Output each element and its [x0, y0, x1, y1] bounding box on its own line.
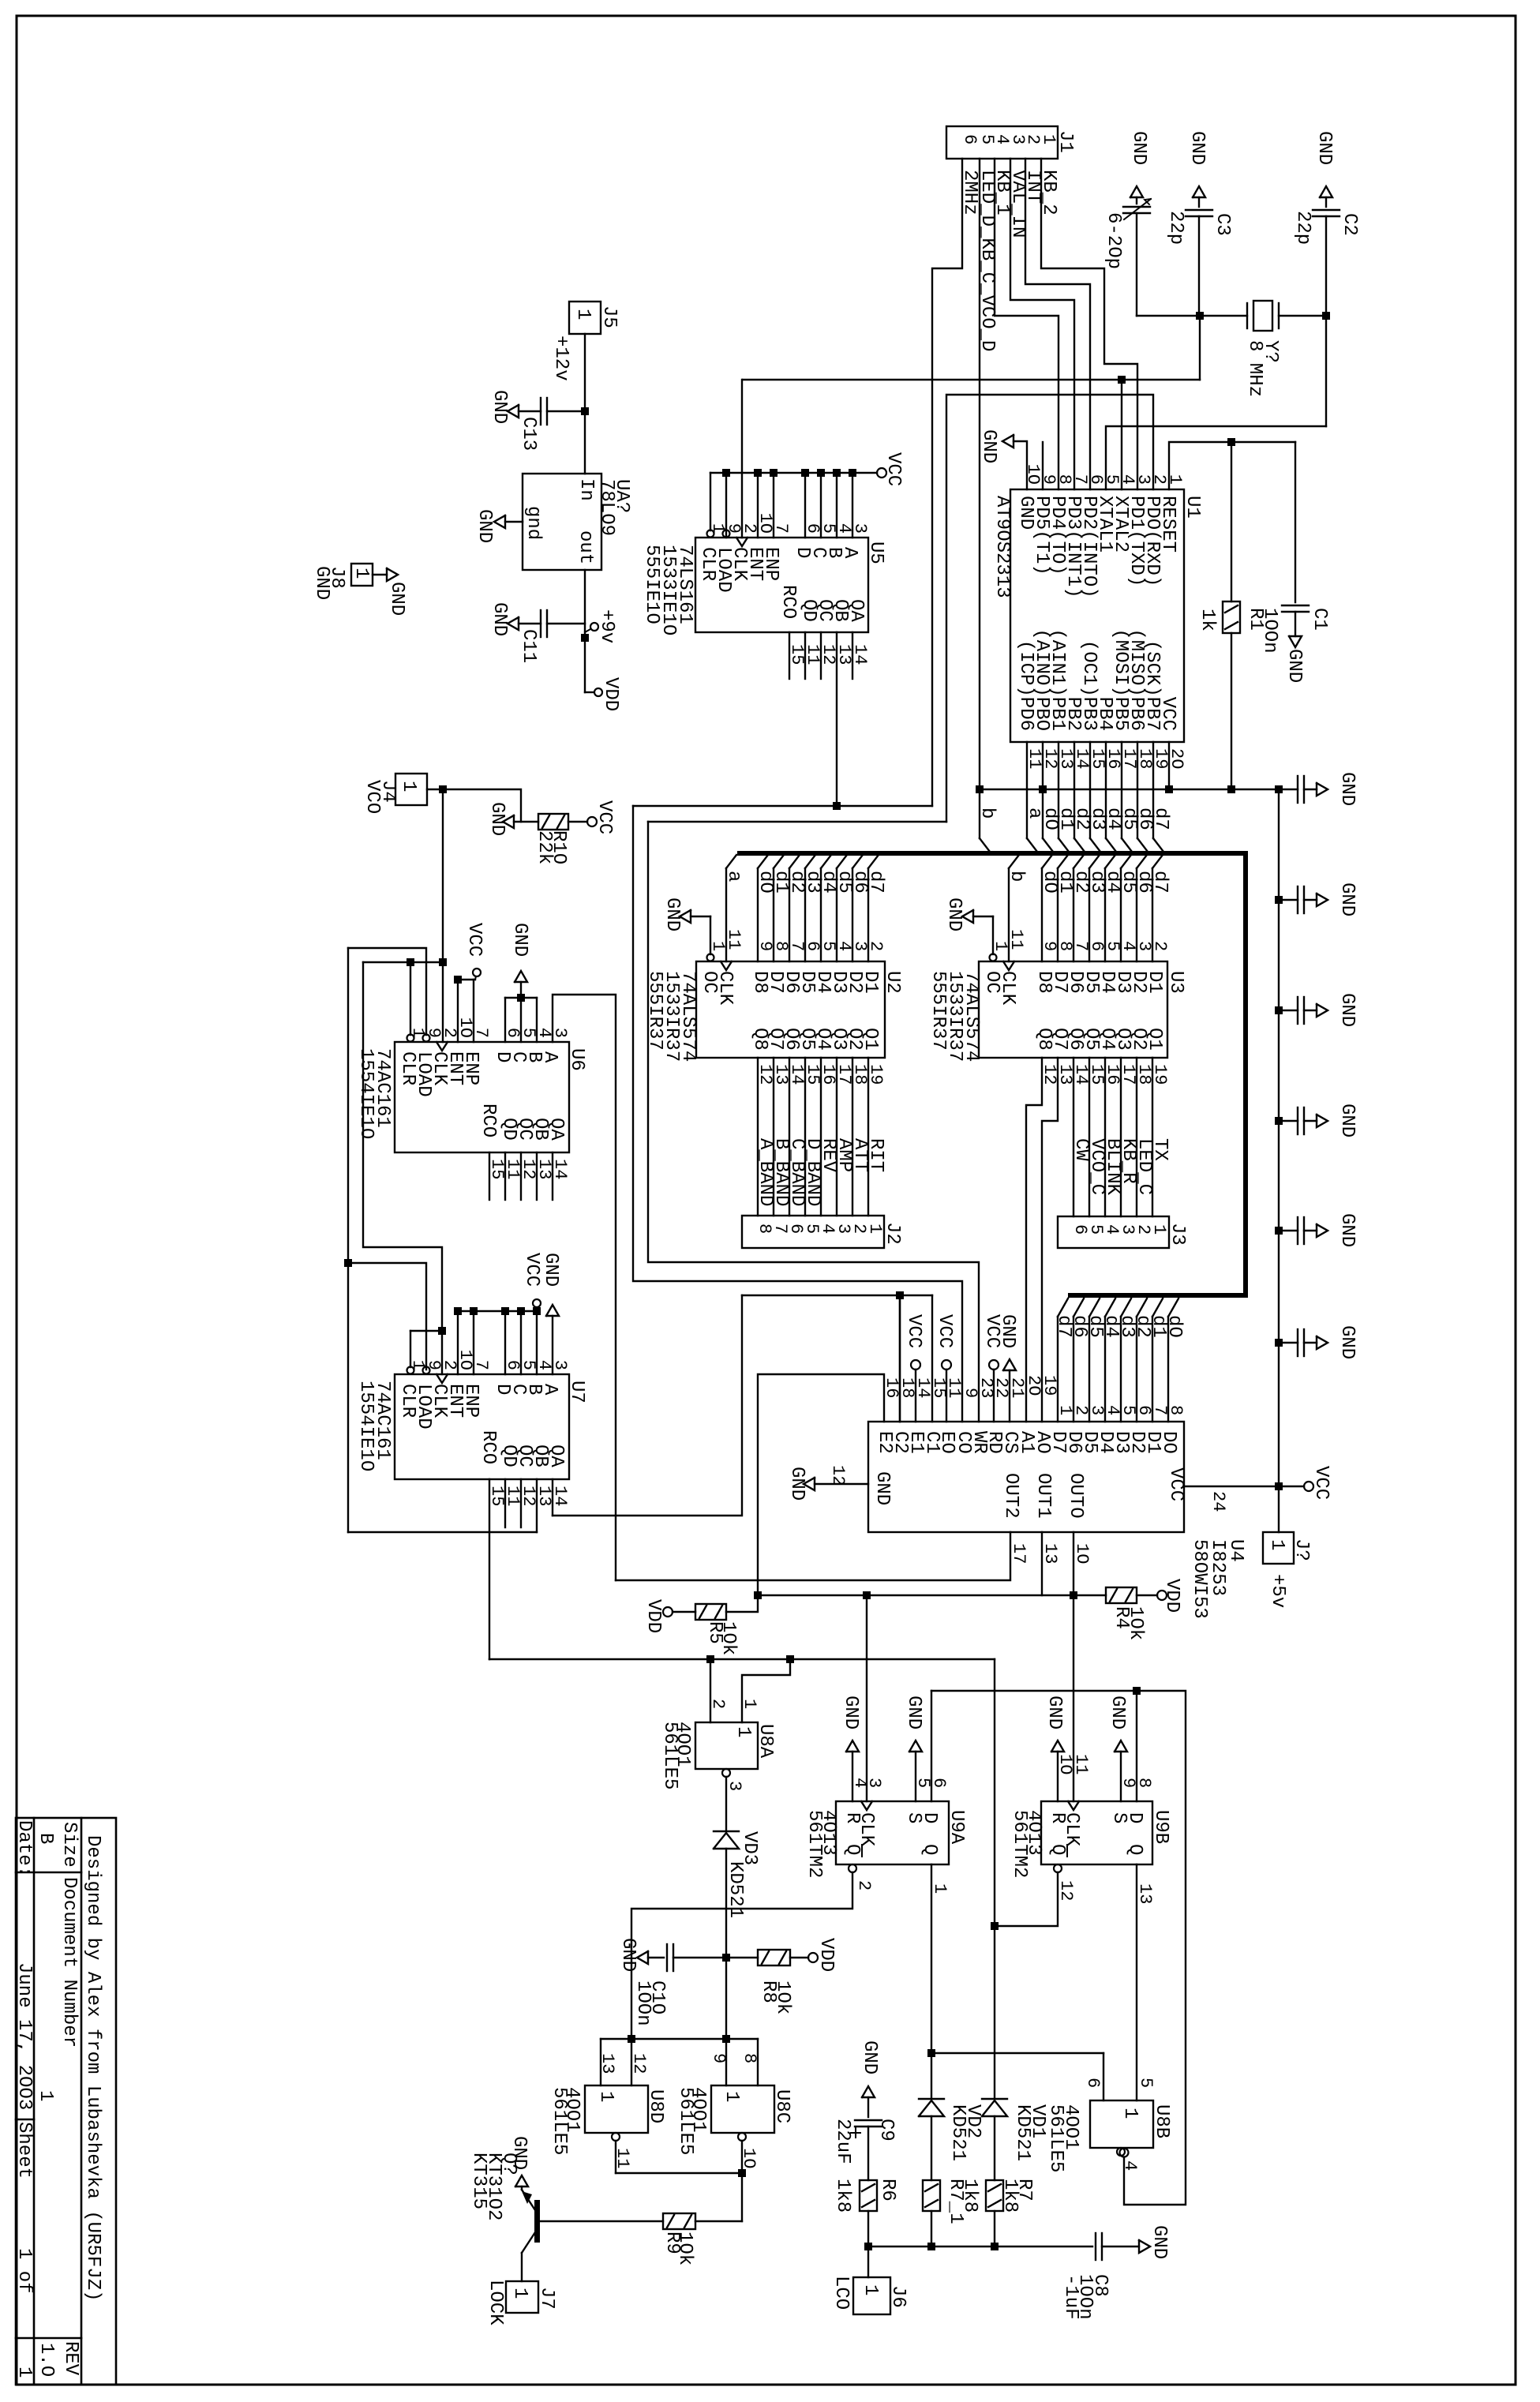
svg-text:b: b — [1006, 871, 1027, 882]
svg-text:7: 7 — [471, 1360, 491, 1370]
svg-text:1: 1 — [13, 2366, 35, 2378]
svg-text:1554IE1O: 1554IE1O — [355, 1048, 377, 1139]
svg-text:7: 7 — [471, 1028, 491, 1038]
svg-text:U8C: U8C — [771, 2089, 792, 2123]
svg-text:U5: U5 — [865, 541, 886, 564]
svg-text:d7: d7 — [865, 871, 886, 894]
svg-text:21: 21 — [1007, 1377, 1027, 1398]
svg-text:GND: GND — [1128, 131, 1149, 165]
svg-text:561TM2: 561TM2 — [1009, 1810, 1030, 1878]
svg-text:13: 13 — [598, 2053, 617, 2074]
svg-text:dO: dO — [1163, 1315, 1185, 1338]
svg-text:GND: GND — [1336, 993, 1358, 1027]
svg-text:June 17, 2OO3: June 17, 2OO3 — [13, 1962, 35, 2110]
svg-text:VCC: VCC — [903, 1314, 924, 1348]
svg-text:VDD: VDD — [600, 677, 621, 711]
svg-text:VDD: VDD — [1161, 1579, 1182, 1613]
svg-text:Date:: Date: — [13, 1820, 35, 1877]
svg-text:GND: GND — [1336, 1104, 1358, 1137]
svg-text:8: 8 — [1166, 1405, 1186, 1415]
svg-text:1: 1 — [595, 2091, 616, 2102]
svg-text:GND: GND — [540, 1253, 561, 1287]
svg-text:GND: GND — [978, 429, 999, 463]
svg-text:+9v: +9v — [596, 609, 617, 643]
svg-text:13: 13 — [1040, 1543, 1060, 1564]
svg-text:14: 14 — [850, 644, 870, 665]
svg-text:J1: J1 — [1055, 130, 1076, 153]
svg-text:U7: U7 — [566, 1381, 587, 1403]
svg-text:VD2: VD2 — [962, 2104, 984, 2138]
svg-text:C3: C3 — [1212, 213, 1233, 236]
svg-text:J5: J5 — [598, 305, 620, 328]
svg-text:1OOn: 1OOn — [632, 1980, 654, 2026]
svg-text:OUT1: OUT1 — [1032, 1473, 1054, 1519]
svg-text:22k: 22k — [534, 830, 555, 864]
svg-text:D1: D1 — [860, 971, 881, 994]
svg-text:RCO: RCO — [777, 585, 799, 619]
svg-text:78LO9: 78LO9 — [596, 479, 617, 536]
svg-text:J7: J7 — [536, 2287, 557, 2310]
svg-text:J6: J6 — [887, 2285, 909, 2308]
svg-text:1: 1 — [733, 1726, 754, 1737]
svg-text:GND: GND — [1336, 882, 1358, 916]
svg-text:1: 1 — [721, 2091, 742, 2102]
svg-text:5: 5 — [1136, 2078, 1156, 2088]
svg-text:Designed by Alex from Lubashev: Designed by Alex from Lubashevka (UR5FJZ… — [82, 1835, 103, 2302]
svg-text:VDD: VDD — [815, 1938, 837, 1972]
svg-text:GND: GND — [1107, 1696, 1128, 1729]
svg-text:1: 1 — [1149, 1224, 1169, 1235]
svg-text:GND: GND — [1336, 1325, 1358, 1359]
svg-text:Size: Size — [58, 1822, 80, 1868]
svg-text:+12v: +12v — [550, 335, 571, 381]
svg-text:1Ok: 1Ok — [718, 1621, 739, 1655]
svg-text:11: 11 — [944, 1377, 964, 1398]
svg-text:A: A — [839, 547, 860, 559]
svg-text:3: 3 — [864, 1778, 884, 1788]
svg-text:KT315: KT315 — [468, 2153, 489, 2209]
svg-text:7: 7 — [771, 523, 791, 534]
svg-text:D: D — [919, 1812, 940, 1823]
svg-text:GND: GND — [1044, 1696, 1065, 1729]
svg-text:AT9OS2313: AT9OS2313 — [991, 496, 1013, 598]
svg-text:24: 24 — [1208, 1491, 1228, 1512]
svg-text:14: 14 — [550, 1486, 570, 1506]
svg-text:VD3: VD3 — [739, 1831, 760, 1865]
svg-text:RCO: RCO — [478, 1104, 499, 1137]
svg-text:Q: Q — [1124, 1844, 1145, 1855]
svg-text:1O: 1O — [1023, 464, 1043, 485]
svg-text:U8B: U8B — [1151, 2104, 1172, 2138]
svg-text:CLK: CLK — [1061, 1812, 1082, 1847]
svg-text:OUTO: OUTO — [1065, 1473, 1086, 1519]
svg-text:U9A: U9A — [946, 1810, 967, 1845]
svg-text:22uF: 22uF — [832, 2119, 853, 2164]
svg-text:1.O: 1.O — [36, 2343, 57, 2377]
svg-text:GND: GND — [1336, 772, 1358, 806]
svg-text:1: 1 — [398, 781, 419, 792]
svg-text:CLK: CLK — [856, 1812, 877, 1847]
svg-text:TX: TX — [1149, 1138, 1171, 1161]
svg-text:VCC: VCC — [882, 452, 904, 486]
svg-text:GND: GND — [1313, 131, 1335, 165]
svg-text:C13: C13 — [518, 417, 539, 451]
svg-text:GND: GND — [1283, 649, 1305, 683]
svg-text:gnd: gnd — [523, 506, 544, 540]
svg-text:14: 14 — [913, 1377, 933, 1398]
svg-text:1: 1 — [509, 2288, 530, 2299]
svg-text:VCC: VCC — [1165, 1467, 1186, 1501]
svg-text:Q: Q — [1047, 1844, 1068, 1855]
svg-text:3: 3 — [725, 1781, 744, 1791]
svg-text:QA: QA — [845, 599, 867, 622]
svg-text:6: 6 — [960, 134, 980, 144]
svg-text:3: 3 — [550, 1360, 570, 1370]
svg-text:VCC: VCC — [463, 923, 485, 957]
svg-text:GND: GND — [509, 923, 530, 957]
svg-text:A: A — [539, 1051, 560, 1063]
svg-text:555IR37: 555IR37 — [644, 971, 665, 1051]
svg-text:GND: GND — [786, 1467, 807, 1501]
svg-text:b: b — [976, 808, 998, 819]
svg-text:GND: GND — [311, 566, 332, 600]
svg-text:Q: Q — [841, 1844, 863, 1855]
svg-text:2: 2 — [708, 1699, 728, 1709]
svg-text:GND: GND — [489, 390, 510, 424]
svg-text:D: D — [1124, 1812, 1145, 1823]
svg-text:GND: GND — [386, 582, 407, 616]
svg-text:VD1: VD1 — [1027, 2104, 1048, 2138]
svg-text:1: 1 — [572, 309, 594, 320]
svg-text:Q: Q — [919, 1844, 940, 1855]
svg-text:C1: C1 — [1309, 608, 1330, 631]
svg-text:A: A — [539, 1384, 560, 1396]
svg-text:Q1: Q1 — [1144, 1028, 1165, 1051]
svg-text:1Ok: 1Ok — [772, 1980, 793, 2014]
svg-text:561TM2: 561TM2 — [804, 1810, 825, 1878]
svg-text:Q1: Q1 — [860, 1028, 881, 1051]
svg-text:1: 1 — [860, 2284, 881, 2295]
svg-text:R6: R6 — [877, 2179, 898, 2202]
svg-text:B: B — [35, 1833, 56, 1844]
svg-text:1: 1 — [1266, 1539, 1287, 1550]
svg-text:VCC: VCC — [1310, 1466, 1332, 1500]
svg-text:GND: GND — [1015, 496, 1036, 530]
svg-text:R7: R7 — [1014, 2179, 1035, 2202]
svg-text:14: 14 — [550, 1159, 570, 1179]
svg-text:1Ok: 1Ok — [1125, 1606, 1146, 1640]
svg-text:LOCK: LOCK — [485, 2280, 506, 2325]
svg-text:QA: QA — [545, 1445, 567, 1467]
svg-text:U8D: U8D — [645, 2089, 666, 2123]
svg-text:555IR37: 555IR37 — [927, 971, 949, 1051]
svg-text:ENP: ENP — [460, 1384, 481, 1418]
svg-text:ENP: ENP — [460, 1051, 481, 1085]
svg-text:-1uF: -1uF — [1060, 2274, 1081, 2320]
svg-text:1: 1 — [930, 1883, 950, 1894]
svg-text:8: 8 — [740, 2053, 759, 2063]
svg-text:561LE5: 561LE5 — [659, 1722, 680, 1789]
svg-text:2: 2 — [1150, 941, 1170, 951]
svg-text:CLK: CLK — [714, 971, 736, 1006]
svg-text:U1: U1 — [1182, 496, 1203, 519]
svg-text:Document Number: Document Number — [58, 1877, 80, 2048]
svg-text:J?: J? — [1291, 1538, 1312, 1561]
svg-text:3: 3 — [850, 523, 870, 534]
svg-text:561LE5: 561LE5 — [549, 2087, 570, 2155]
svg-text:VCO: VCO — [362, 780, 383, 814]
svg-text:12: 12 — [828, 1465, 848, 1486]
svg-text:1OOn: 1OOn — [1259, 608, 1280, 654]
svg-text:6: 6 — [929, 1778, 949, 1788]
svg-text:U6: U6 — [566, 1048, 587, 1071]
svg-text:6-2Op: 6-2Op — [1103, 212, 1124, 269]
svg-text:C2: C2 — [1339, 213, 1360, 236]
svg-text:+5v: +5v — [1267, 1574, 1288, 1608]
svg-text:LCO: LCO — [830, 2276, 852, 2310]
svg-text:17: 17 — [1009, 1543, 1029, 1564]
svg-text:GND: GND — [486, 802, 508, 836]
svg-text:U8A: U8A — [755, 1724, 776, 1759]
svg-text:J3: J3 — [1167, 1223, 1188, 1246]
svg-text:13: 13 — [1135, 1883, 1155, 1904]
svg-text:1Ok: 1Ok — [674, 2231, 695, 2265]
svg-text:D1: D1 — [1144, 971, 1165, 994]
svg-text:22p: 22p — [1292, 211, 1313, 245]
svg-text:8: 8 — [1134, 1778, 1154, 1788]
svg-text:GND: GND — [943, 897, 965, 931]
svg-text:VDD: VDD — [643, 1599, 664, 1633]
svg-text:2: 2 — [866, 941, 886, 951]
svg-text:GND: GND — [840, 1696, 861, 1729]
svg-text:8 MHz: 8 MHz — [1244, 340, 1265, 397]
svg-text:C11: C11 — [518, 629, 539, 663]
svg-text:2: 2 — [854, 1880, 874, 1890]
svg-text:GND: GND — [997, 1314, 1018, 1348]
svg-text:VCC: VCC — [934, 1314, 955, 1348]
svg-text:9: 9 — [709, 2053, 729, 2063]
svg-text:J2: J2 — [882, 1222, 903, 1245]
svg-text:VCC: VCC — [1157, 697, 1178, 731]
svg-text:VCC: VCC — [594, 800, 615, 834]
svg-text:11: 11 — [1071, 1754, 1091, 1774]
svg-text:KD521: KD521 — [725, 1861, 746, 1918]
svg-text:CLK: CLK — [997, 971, 1018, 1006]
svg-text:1: 1 — [740, 1699, 759, 1709]
svg-text:22p: 22p — [1165, 211, 1186, 245]
svg-text:R7_1: R7_1 — [945, 2179, 966, 2224]
svg-text:4: 4 — [1120, 2160, 1140, 2171]
svg-text:GND: GND — [1186, 131, 1208, 165]
svg-text:GND: GND — [661, 897, 683, 931]
svg-text:d7: d7 — [1149, 871, 1171, 894]
svg-text:REV: REV — [60, 2341, 81, 2376]
svg-text:58OWI53: 58OWI53 — [1189, 1539, 1210, 1619]
svg-text:1554IE1O: 1554IE1O — [355, 1381, 377, 1471]
svg-text:3: 3 — [550, 1028, 570, 1038]
svg-text:DO: DO — [1158, 1431, 1179, 1454]
svg-text:555IE1O: 555IE1O — [641, 545, 662, 624]
svg-text:1k: 1k — [1197, 609, 1218, 631]
svg-text:QA: QA — [545, 1118, 567, 1141]
svg-text:GND: GND — [903, 1696, 924, 1729]
svg-text:Sheet: Sheet — [13, 2122, 35, 2179]
svg-text:1 of: 1 of — [13, 2248, 35, 2294]
svg-text:GND: GND — [1336, 1213, 1358, 1247]
svg-text:d7: d7 — [1150, 808, 1171, 830]
svg-text:561LE5: 561LE5 — [675, 2087, 696, 2155]
svg-text:1: 1 — [35, 2090, 56, 2101]
svg-text:out: out — [575, 530, 596, 564]
svg-text:12: 12 — [629, 2053, 649, 2074]
svg-text:561LE5: 561LE5 — [1045, 2104, 1066, 2172]
svg-text:19: 19 — [1150, 1064, 1170, 1085]
svg-text:GND: GND — [859, 2040, 880, 2074]
svg-text:In: In — [575, 478, 597, 501]
svg-text:19: 19 — [1040, 1375, 1059, 1396]
svg-text:1O: 1O — [1072, 1543, 1092, 1564]
svg-text:GND: GND — [489, 602, 510, 636]
svg-text:ENP: ENP — [760, 547, 781, 581]
svg-text:VCC: VCC — [521, 1253, 542, 1287]
svg-text:GND: GND — [1148, 2225, 1170, 2259]
svg-text:C9: C9 — [875, 2119, 897, 2142]
svg-text:U2: U2 — [882, 971, 903, 994]
svg-text:RCO: RCO — [478, 1430, 499, 1464]
svg-text:U3: U3 — [1165, 971, 1186, 994]
svg-text:RIT: RIT — [865, 1138, 886, 1172]
svg-text:a: a — [723, 871, 744, 882]
svg-text:6: 6 — [1083, 2078, 1103, 2088]
svg-text:GND: GND — [617, 1938, 639, 1972]
svg-text:19: 19 — [866, 1064, 886, 1085]
svg-text:GND: GND — [474, 509, 495, 543]
svg-text:1: 1 — [350, 568, 372, 579]
svg-text:1: 1 — [1119, 2108, 1141, 2119]
svg-text:GND: GND — [871, 1471, 893, 1505]
svg-text:U9B: U9B — [1150, 1810, 1171, 1844]
svg-text:1k8: 1k8 — [832, 2179, 853, 2213]
svg-text:12: 12 — [1056, 1880, 1076, 1901]
svg-text:OUT2: OUT2 — [1000, 1473, 1021, 1519]
